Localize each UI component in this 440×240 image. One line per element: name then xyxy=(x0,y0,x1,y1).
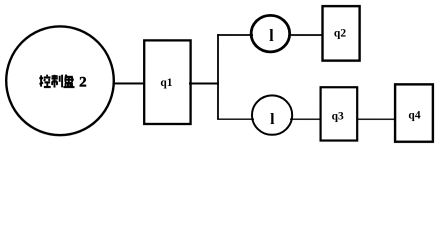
wire: riser to indicator circle l (bottom) xyxy=(217,118,254,120)
wire: indicator l to q3 xyxy=(290,118,321,120)
block q1 xyxy=(144,40,190,124)
block q4 xyxy=(395,84,433,141)
wire: q3 to q4 xyxy=(357,118,396,120)
wire: junction riser vertical xyxy=(217,34,219,119)
indicator circle 1 (top) xyxy=(251,15,290,52)
wire: riser to indicator circle 1 (top) xyxy=(217,34,253,36)
svg-text:l: l xyxy=(269,26,274,45)
wire: q1 to junction riser xyxy=(189,82,219,84)
svg-text:l: l xyxy=(270,111,275,128)
block q2 xyxy=(323,6,360,61)
wire: indicator 1 to q2 xyxy=(289,34,323,36)
wire: 控制盘 2 to q1 xyxy=(113,82,145,84)
label 控制盘 2 xyxy=(39,75,74,88)
svg-text:2: 2 xyxy=(79,74,87,90)
svg-text:q4: q4 xyxy=(408,110,420,122)
block q3 xyxy=(321,87,358,140)
indicator circle l (bottom) xyxy=(252,95,292,134)
svg-text:q2: q2 xyxy=(334,28,346,40)
svg-text:q3: q3 xyxy=(332,111,344,123)
svg-text:q1: q1 xyxy=(160,77,172,89)
node 控制盘 2 : control panel circle xyxy=(6,26,114,135)
